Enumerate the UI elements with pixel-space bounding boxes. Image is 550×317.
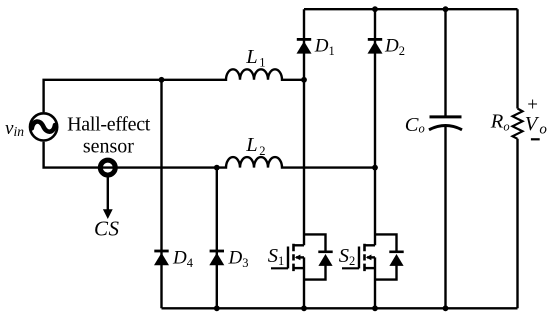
wire Co branch upper <box>444 9 446 115</box>
junction dot L1-D1 node <box>301 77 307 83</box>
mosfet S1 body stub <box>296 256 304 258</box>
wire right branch lower (Ro bottom lead) <box>516 139 518 308</box>
svg-text:D3: D3 <box>228 248 249 270</box>
diode D2 cathode bar <box>368 38 382 41</box>
svg-text:Hall-effect: Hall-effect <box>67 113 151 135</box>
sine symbol inside vin <box>32 122 55 132</box>
junction dot L2-D2 node <box>372 165 378 171</box>
wire D3 branch vertical <box>216 168 218 309</box>
mosfet S1 body-diode triangle <box>318 254 332 266</box>
wire vin top lead and upper input row with L1 <box>44 69 304 112</box>
mosfet S2 channel segments <box>363 244 366 271</box>
mosfet S1 body-diode cathode bar <box>318 251 332 254</box>
wire S2 source lead <box>374 257 376 308</box>
junction dot bottom rail at D3 <box>214 305 220 311</box>
mosfet S2 body-diode triangle <box>389 254 403 266</box>
label minus sign <box>531 138 540 140</box>
wire bottom rail <box>162 307 518 309</box>
wire S1 source lead <box>303 257 305 308</box>
resistor Ro zigzag <box>513 109 523 139</box>
wire top rail <box>304 8 518 10</box>
svg-text:D1: D1 <box>314 35 335 58</box>
capacitor Co curved plate <box>429 126 462 130</box>
svg-text:vin: vin <box>5 118 24 139</box>
mosfet S2 body-diode branch wires <box>375 234 397 279</box>
diode D1 cathode bar <box>297 38 311 41</box>
svg-text:L1: L1 <box>245 46 265 70</box>
wire D1/S1 branch vertical upper <box>303 9 305 245</box>
svg-text:S1: S1 <box>268 245 285 268</box>
capacitor Co top plate <box>430 115 462 118</box>
mosfet S1 gate bar <box>287 247 289 269</box>
wire right branch upper (Ro top lead) <box>516 9 518 108</box>
mosfet S2 gate bar <box>358 247 360 269</box>
mosfet S1 body-diode branch wires <box>304 234 326 279</box>
junction dot top rail at D2 <box>372 6 378 12</box>
wire D2/S2 branch vertical upper <box>374 9 376 245</box>
mosfet S2 arrow head <box>366 255 372 261</box>
mosfet S1 arrow head <box>295 255 301 261</box>
junction dot lower row at D3 <box>214 165 220 171</box>
CS arrow head <box>103 209 113 219</box>
diode D1 triangle <box>297 41 312 53</box>
svg-text:L2: L2 <box>245 134 265 158</box>
svg-text:D4: D4 <box>172 248 194 270</box>
arrow CS from sensor <box>107 178 109 212</box>
diode D2 triangle <box>368 41 383 53</box>
junction dot bottom rail at S1 <box>301 305 307 311</box>
svg-text:+: + <box>527 95 538 116</box>
voltage source vin circle <box>30 113 57 140</box>
svg-text:Co: Co <box>405 114 425 136</box>
mosfet S2 gate lead <box>342 267 359 269</box>
mosfet S1 gate lead <box>271 267 288 269</box>
diode D4 cathode bar <box>154 250 168 253</box>
junction dot upper row at D4 <box>159 77 165 83</box>
diode D3 triangle <box>209 253 224 265</box>
junction dot bottom rail at S2 <box>372 305 378 311</box>
svg-text:Vo: Vo <box>525 113 548 138</box>
wire Co branch lower <box>444 126 446 309</box>
hall-effect sensor ring <box>100 160 115 175</box>
wire D4 branch vertical <box>160 80 162 308</box>
svg-text:CS: CS <box>94 217 120 241</box>
mosfet S1 drain stub <box>294 244 305 246</box>
wire vin bottom lead and lower input row with L2 <box>44 142 375 168</box>
junction dot top rail at Co <box>443 6 449 12</box>
mosfet S2 body stub <box>367 256 375 258</box>
diode D4 triangle <box>154 253 169 265</box>
diode D3 cathode bar <box>210 250 224 253</box>
mosfet S1 channel segments <box>292 244 295 271</box>
mosfet S2 source stub <box>365 267 376 269</box>
junction dot bottom rail at Co <box>443 305 449 311</box>
mosfet S1 source stub <box>294 267 305 269</box>
mosfet S2 drain stub <box>365 244 376 246</box>
mosfet S2 body-diode cathode bar <box>389 251 403 254</box>
svg-text:Ro: Ro <box>490 110 510 133</box>
svg-text:S2: S2 <box>339 245 356 268</box>
svg-text:D2: D2 <box>384 35 405 58</box>
svg-text:sensor: sensor <box>83 136 134 158</box>
